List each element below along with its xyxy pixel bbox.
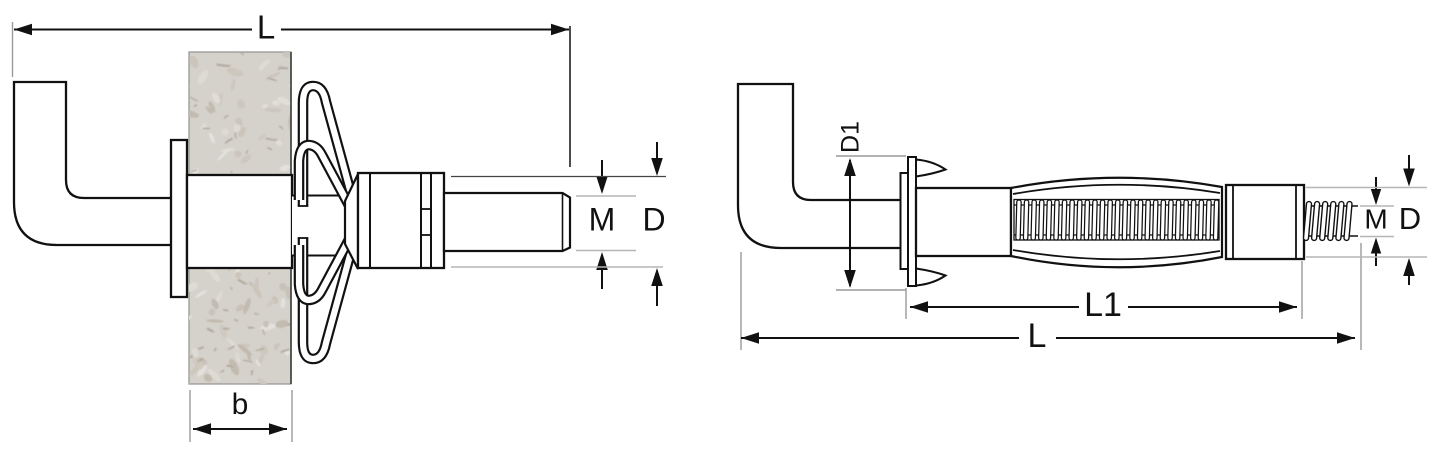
- L-hook (free view): [738, 84, 901, 248]
- expanded leg bottom-inner: [299, 234, 352, 300]
- svg-text:L1: L1: [1084, 286, 1122, 324]
- svg-text:L: L: [257, 9, 275, 46]
- sleeve channel between wings: [292, 196, 358, 255]
- nut body: [358, 173, 444, 268]
- expansion sleeve with slots: [1011, 178, 1222, 268]
- dimension M (right figure): [1360, 205, 1394, 207]
- anchor body cylinder: [916, 188, 1011, 256]
- svg-text:b: b: [232, 388, 249, 421]
- cone at nut: [345, 174, 358, 269]
- flange tooth top: [916, 160, 946, 177]
- threaded rod (plain view): [444, 193, 570, 251]
- dimension D1: [836, 155, 906, 157]
- dimension L (right figure): [740, 252, 742, 350]
- expanded leg top-outer: [303, 86, 352, 206]
- svg-text:D: D: [642, 201, 665, 237]
- dimension M (left figure): [576, 195, 636, 197]
- threaded rod inside window: [1016, 200, 1021, 240]
- L-hook (installed view): [14, 82, 172, 245]
- leg strip end caps: [298, 205, 309, 207]
- svg-text:D: D: [1399, 201, 1421, 236]
- washer plate against wall: [171, 140, 187, 297]
- flange tooth bottom: [916, 269, 946, 286]
- dimension L (left figure): [12, 22, 14, 77]
- expanded leg bottom-outer: [303, 238, 352, 359]
- flange back plate: [901, 173, 909, 269]
- dimension b: [189, 390, 191, 442]
- svg-text:M: M: [1364, 203, 1387, 234]
- dimension D (left figure): [451, 176, 666, 178]
- expanded leg top-inner: [299, 145, 352, 211]
- svg-text:M: M: [589, 201, 616, 237]
- flange washer: [908, 157, 916, 286]
- svg-text:L: L: [1028, 317, 1047, 355]
- svg-text:D1: D1: [837, 121, 865, 153]
- anchor sleeve through wall: [187, 175, 292, 268]
- dimension L1: [905, 288, 907, 319]
- collar sleeve: [1226, 185, 1304, 259]
- dimension D (right figure): [1306, 187, 1427, 189]
- threaded stud: [1306, 205, 1358, 207]
- wall back edge: [290, 52, 292, 384]
- thread window: [1014, 200, 1219, 241]
